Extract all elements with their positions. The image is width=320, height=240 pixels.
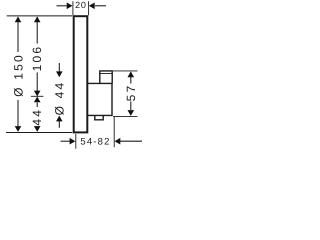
svg-text:Ø 44: Ø 44 xyxy=(52,81,66,116)
svg-text:20: 20 xyxy=(75,0,87,10)
svg-text:106: 106 xyxy=(30,45,44,72)
svg-text:57: 57 xyxy=(124,84,138,102)
svg-text:Ø 150: Ø 150 xyxy=(11,53,25,97)
svg-text:54-82: 54-82 xyxy=(80,137,110,148)
svg-text:44: 44 xyxy=(30,108,44,126)
